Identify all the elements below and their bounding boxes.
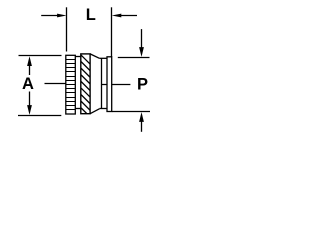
A down arrow shaft (29, 92, 31, 108)
flange hatching (78, 52, 94, 121)
pilot groove line (101, 58, 103, 108)
A up arrow shaft (29, 64, 31, 75)
L left arrowhead (57, 14, 66, 18)
P leader line (102, 84, 131, 86)
knurl rungs (66, 60, 76, 110)
svg-text:P: P (137, 76, 148, 94)
A top extension line (19, 55, 62, 57)
P up arrow shaft (141, 121, 143, 132)
knurled band outline (66, 55, 76, 114)
A leader line (45, 83, 67, 85)
L right arrowhead (112, 14, 122, 18)
svg-text:A: A (22, 75, 34, 93)
P down arrow shaft (141, 29, 143, 48)
hatched flange outline (81, 54, 90, 114)
svg-text:L: L (86, 6, 96, 24)
L left arrow leader (41, 15, 58, 17)
P top extension line (118, 57, 150, 59)
neck bottom edge (75, 108, 81, 110)
pilot section top edge (99, 57, 107, 59)
P bottom extension line (112, 111, 150, 113)
A up arrowhead (27, 56, 32, 66)
A down arrowhead (27, 105, 32, 115)
cone top edge (90, 54, 99, 58)
end band (107, 57, 112, 112)
L right arrow leader (120, 15, 137, 17)
neck top edge (75, 56, 81, 58)
pilot section bottom edge (100, 108, 107, 110)
cone bottom edge (90, 109, 100, 114)
L right extension line (111, 7, 113, 57)
P up arrowhead (139, 112, 144, 122)
A bottom extension line (18, 115, 61, 117)
P down arrowhead (139, 47, 144, 57)
L left extension line (66, 7, 68, 51)
